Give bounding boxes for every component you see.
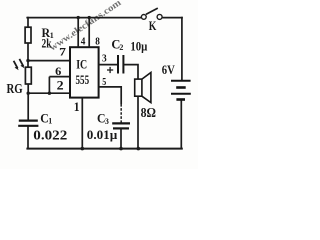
wire pin 5 [99, 87, 122, 104]
wire top-right from switch to corner [162, 17, 182, 19]
svg-text:2: 2 [119, 43, 123, 52]
node C3-ground junction [119, 147, 123, 151]
wire pin 8 [88, 18, 90, 48]
wire C1 to ground rail [27, 126, 29, 149]
svg-text:8: 8 [95, 35, 100, 47]
node speaker-ground junction [137, 147, 141, 151]
node pin1-ground junction [81, 147, 85, 151]
wire pin 4 [77, 18, 79, 48]
wire right rail lower (battery - to bottom rail) [180, 100, 182, 149]
wire pin 2 [28, 92, 70, 94]
svg-text:0.01µ: 0.01µ [87, 127, 118, 142]
wire left rail top (rail to R1) [27, 18, 29, 28]
wire C3 to ground rail [120, 128, 122, 148]
switch K contact left [141, 15, 146, 20]
wire pin 6 [49, 76, 70, 78]
svg-text:8Ω: 8Ω [141, 106, 156, 121]
svg-text:2: 2 [57, 78, 64, 93]
light arrow 1 [14, 61, 19, 70]
svg-text:RG: RG [7, 82, 23, 97]
svg-text:6V: 6V [162, 62, 175, 77]
svg-text:4: 4 [81, 35, 86, 47]
wire pin 3 [99, 64, 118, 66]
resistor R1 [25, 27, 31, 43]
wire top rail [27, 17, 141, 19]
wire bottom ground rail [27, 148, 181, 150]
wire right rail upper (corner to battery +) [181, 18, 183, 81]
node pin4 top [77, 16, 80, 19]
svg-text:10µ: 10µ [130, 39, 147, 54]
wire pin 7 [28, 60, 70, 62]
wire pin 5 lead to C3 (faint in scan) [120, 104, 122, 123]
wire R1 to pin7 node [27, 43, 29, 68]
svg-text:6: 6 [55, 64, 61, 78]
svg-text:IC: IC [76, 57, 87, 72]
wire tie pin6-pin2 [48, 77, 50, 94]
svg-text:1: 1 [74, 99, 80, 114]
svg-text:K: K [149, 18, 157, 33]
svg-text:3: 3 [102, 52, 107, 64]
switch K arm [146, 8, 158, 14]
light arrow 2 [19, 59, 24, 68]
node pin7 junction [26, 59, 29, 62]
plus sign C2 polarity [107, 67, 113, 73]
wire pin 1 [81, 98, 83, 149]
photoresistor RG [25, 67, 31, 84]
svg-text:0.022: 0.022 [33, 129, 67, 144]
op IC U1 555 box [70, 47, 99, 97]
node pin2 junction left [27, 92, 30, 95]
battery BT 6V [171, 81, 191, 100]
svg-text:3: 3 [105, 117, 109, 126]
svg-text:1: 1 [48, 117, 52, 126]
wire speaker to ground rail [137, 96, 139, 148]
node pin8 top [88, 16, 91, 19]
capacitor C3 [112, 123, 130, 128]
svg-text:5: 5 [102, 76, 106, 88]
svg-text:555: 555 [76, 72, 90, 87]
svg-text:2k: 2k [42, 35, 53, 50]
capacitor C2 [118, 55, 123, 74]
switch K contact right [157, 14, 162, 19]
node tie junction [48, 92, 51, 95]
wire C2 to speaker [123, 65, 138, 79]
capacitor C1 [18, 121, 38, 126]
wire RG to pin2 node [27, 84, 29, 120]
speaker LS 8ohm [135, 73, 151, 103]
svg-text:7: 7 [59, 45, 66, 59]
